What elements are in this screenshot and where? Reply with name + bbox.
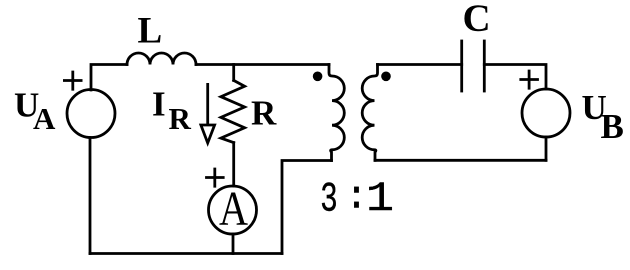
plus sign UB: [521, 71, 538, 88]
wire left side down: [89, 138, 92, 254]
svg-text:L: L: [138, 11, 163, 52]
dot secondary: [381, 72, 391, 82]
capacitor C right plate: [483, 41, 486, 91]
wire secondary top to capacitor: [378, 63, 462, 66]
svg-text::: :: [345, 176, 368, 220]
wire ammeter to bottom: [232, 234, 235, 254]
ammeter A circle: [209, 186, 257, 234]
wire capacitor to UB: [484, 65, 546, 90]
plus sign ammeter: [207, 169, 224, 186]
current arrow IR line: [206, 84, 209, 125]
svg-text:B: B: [601, 107, 624, 146]
wire top from inductor to transformer primary: [196, 63, 329, 66]
current arrow IR head: [201, 125, 215, 143]
svg-text:A: A: [33, 101, 56, 136]
svg-text:C: C: [463, 0, 491, 40]
svg-text:A: A: [219, 181, 249, 236]
resistor R: [221, 80, 245, 142]
wire bottom: [90, 252, 282, 255]
wire top-left from source to inductor: [91, 65, 127, 91]
transformer primary winding: [329, 65, 344, 161]
wire bottom-right riser to primary winding: [282, 161, 332, 254]
svg-text:I: I: [152, 85, 166, 124]
inductor L: [127, 53, 196, 64]
svg-text:R: R: [169, 101, 192, 136]
capacitor C left plate: [460, 41, 463, 91]
wire secondary bottom: [375, 159, 546, 162]
wire resistor to ammeter: [232, 143, 235, 186]
transformer secondary winding: [362, 65, 377, 161]
node junction wire down to resistor: [232, 65, 235, 81]
voltage source UA circle: [67, 90, 115, 138]
svg-text:1: 1: [366, 176, 394, 223]
voltage source UB circle: [522, 89, 570, 137]
plus sign UA: [64, 72, 81, 89]
wire UB down to bottom: [545, 137, 548, 160]
svg-text:3: 3: [320, 176, 338, 224]
dot primary: [313, 72, 323, 82]
svg-text:R: R: [251, 94, 277, 133]
